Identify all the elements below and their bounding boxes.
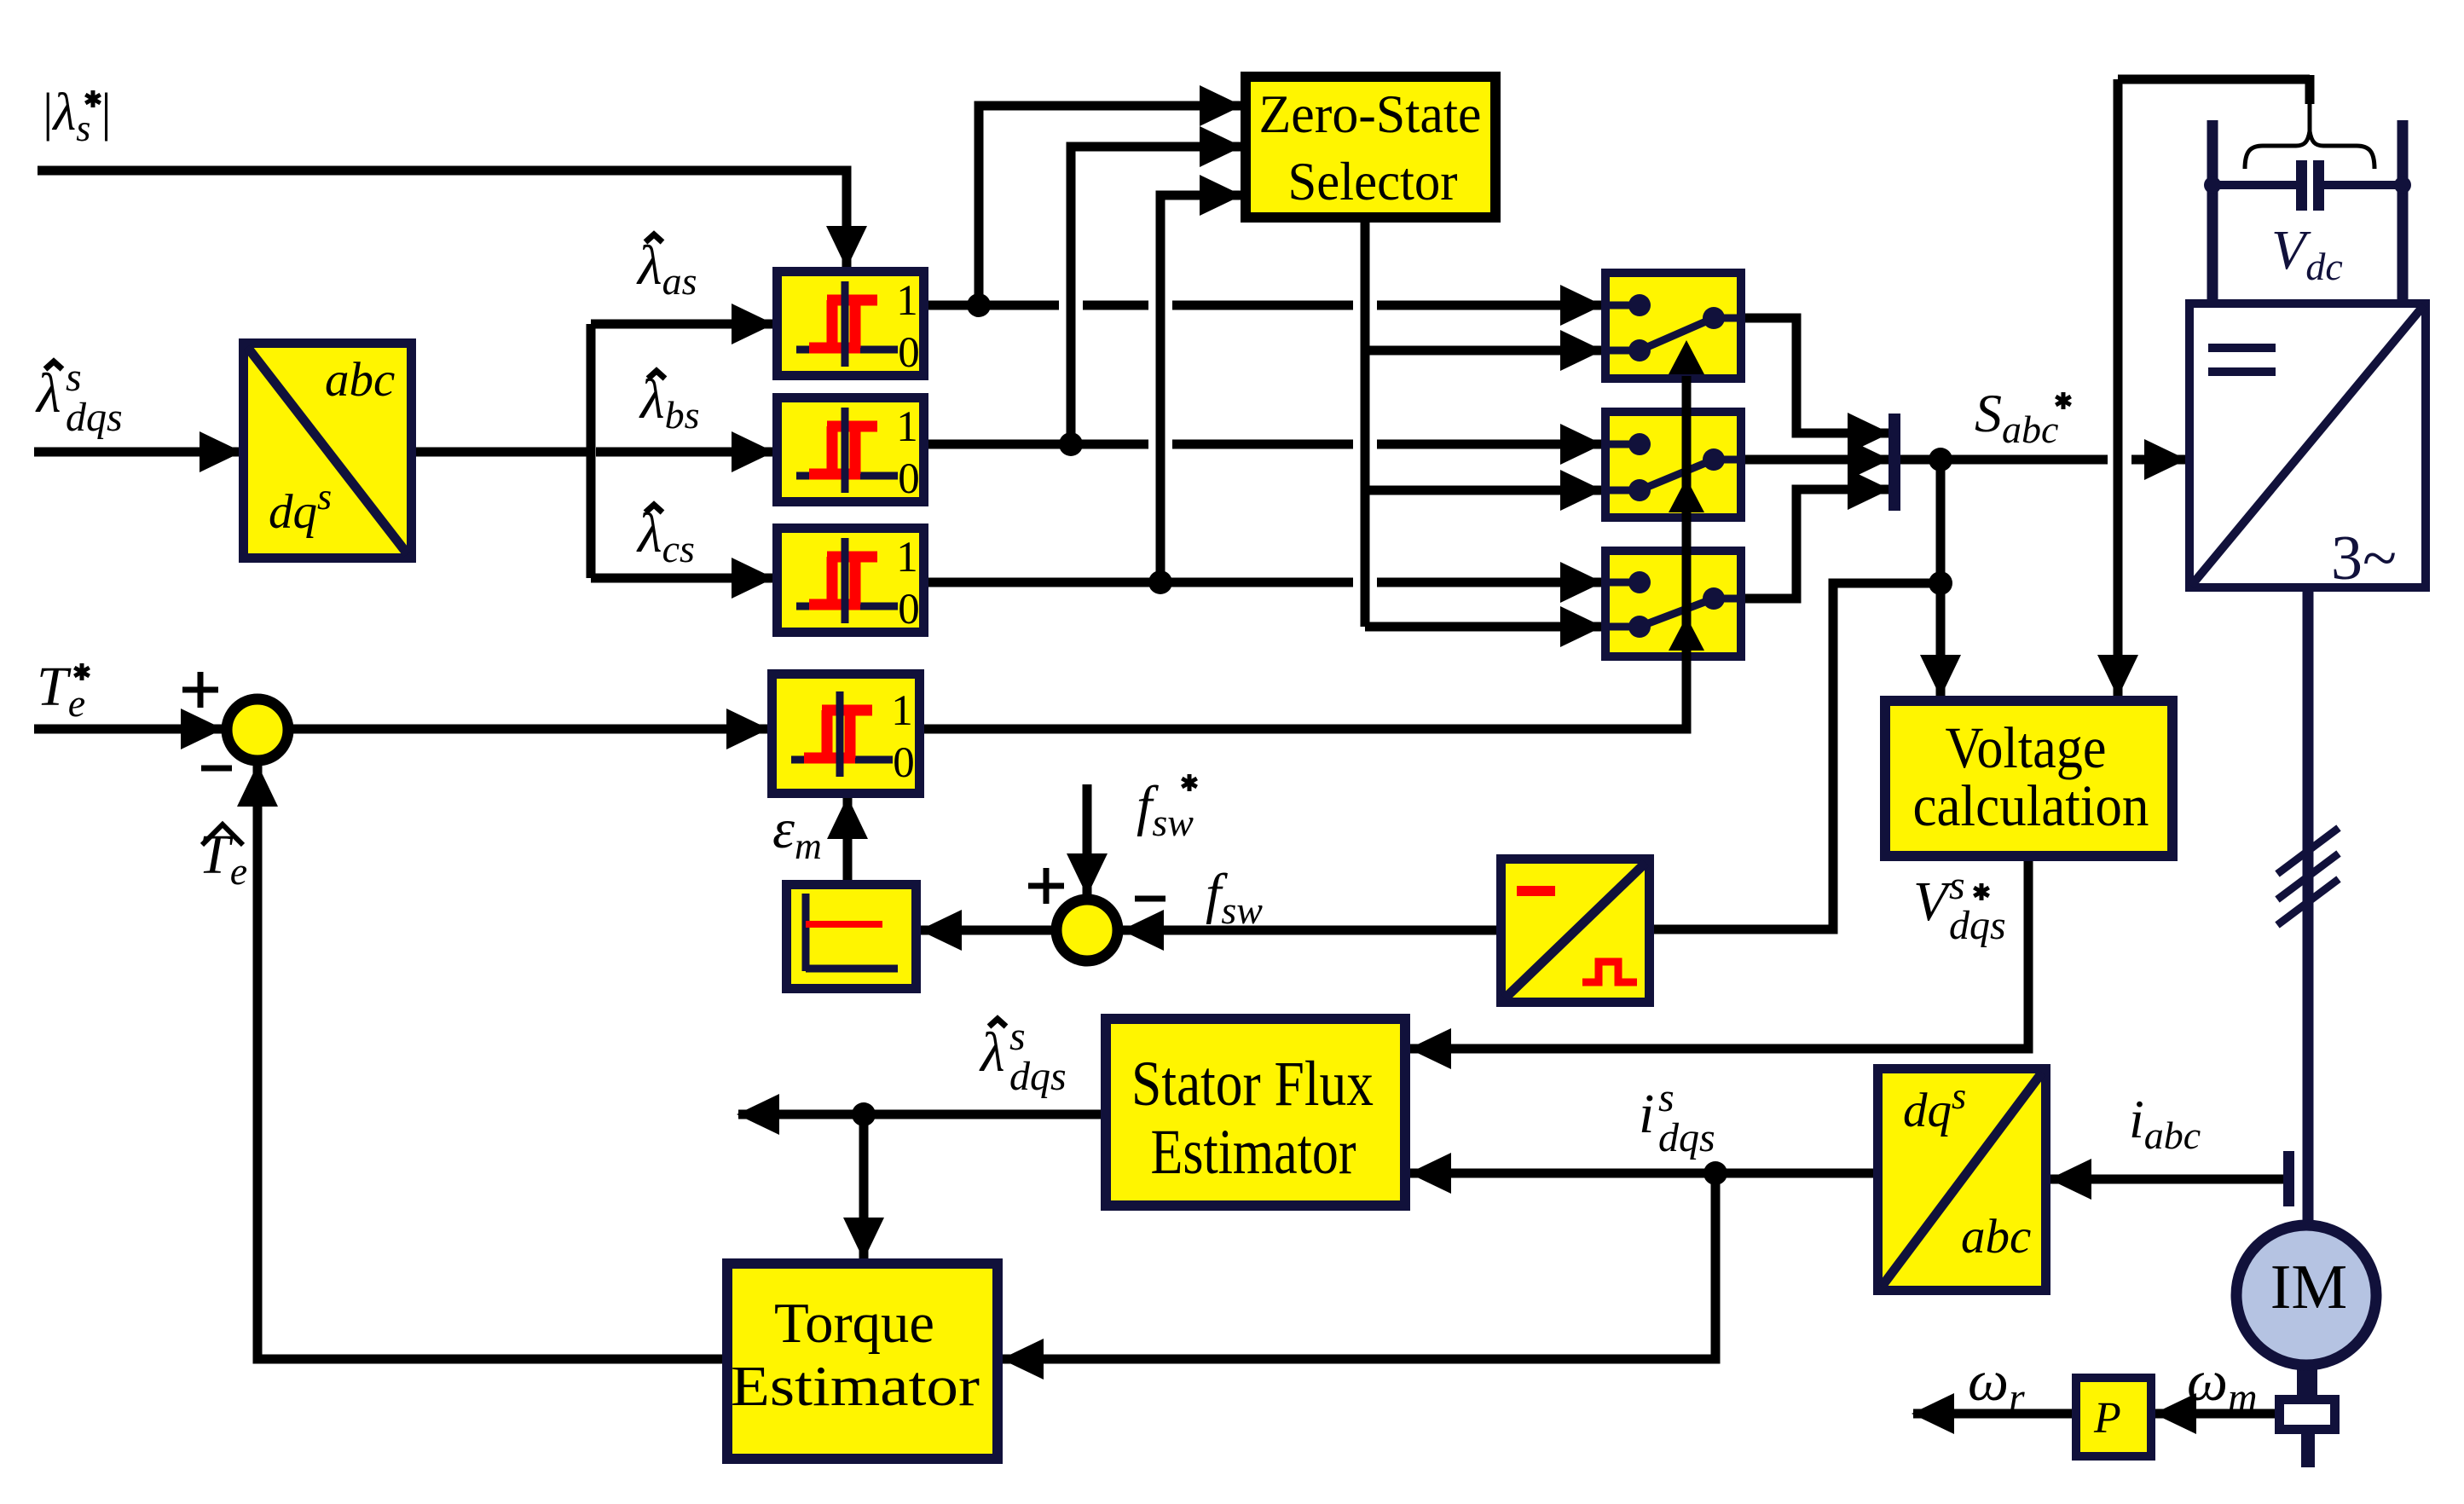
- svg-text:Voltage: Voltage: [1946, 715, 2107, 780]
- svg-text:Zero-State: Zero-State: [1259, 84, 1482, 144]
- svg-text:1: 1: [896, 277, 918, 325]
- svg-text:Estimator: Estimator: [731, 1355, 980, 1418]
- svg-text:0: 0: [893, 739, 915, 787]
- svg-text:Torque: Torque: [774, 1292, 934, 1355]
- svg-text:V: V: [1913, 871, 1953, 933]
- svg-text:dqs: dqs: [1949, 903, 2006, 948]
- svg-text:s: s: [1009, 1014, 1026, 1059]
- svg-text:calculation: calculation: [1913, 773, 2149, 838]
- svg-text:0: 0: [898, 329, 920, 377]
- svg-text:s: s: [1949, 863, 1965, 908]
- svg-text:abc: abc: [325, 353, 395, 407]
- svg-text:Stator Flux: Stator Flux: [1131, 1049, 1374, 1119]
- svg-text:1: 1: [896, 403, 918, 451]
- svg-text:λ: λ: [35, 362, 61, 425]
- svg-text:dqs: dqs: [66, 395, 123, 440]
- svg-text:IM: IM: [2270, 1252, 2347, 1322]
- svg-text:dqs: dqs: [1009, 1054, 1067, 1099]
- svg-text:1: 1: [891, 687, 913, 735]
- svg-text:0: 0: [898, 455, 920, 503]
- svg-text:0: 0: [898, 586, 920, 633]
- svg-text:s: s: [1658, 1075, 1674, 1120]
- svg-text:Estimator: Estimator: [1151, 1117, 1356, 1188]
- svg-text:abc: abc: [1961, 1210, 2031, 1264]
- svg-text:λ: λ: [979, 1021, 1005, 1084]
- svg-text:s: s: [66, 355, 82, 400]
- svg-text:P: P: [2093, 1394, 2121, 1443]
- svg-text:i: i: [1639, 1083, 1654, 1145]
- svg-text:3~: 3~: [2331, 524, 2397, 593]
- svg-text:1: 1: [896, 534, 918, 581]
- svg-text:dqs: dqs: [1658, 1115, 1715, 1160]
- svg-text:Selector: Selector: [1288, 151, 1458, 211]
